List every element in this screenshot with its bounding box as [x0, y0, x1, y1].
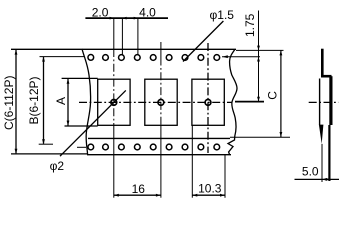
dimension 1.75 and C right shared dimension line [258, 11, 260, 102]
pocket center hole H3 [205, 100, 211, 106]
pocket P2 vertical centerline [160, 42, 162, 198]
left break line [82, 49, 91, 155]
pocket center hole H1 [111, 100, 117, 106]
arrowheads C right [280, 50, 283, 137]
leader line phi 1.5 [183, 21, 223, 62]
pocket P3 vertical centerline [207, 43, 209, 153]
leader line phi 2 [60, 90, 126, 156]
right break line [228, 49, 237, 154]
side view left extension line [321, 144, 323, 182]
side view centerline [309, 101, 339, 103]
B bottom row reference segment [77, 146, 86, 148]
dimension B line [43, 57, 45, 144]
1.75 bottom extension line (hole row center) [222, 56, 260, 58]
tape bottom edge [87, 154, 231, 156]
horizontal centerline [79, 101, 232, 103]
1.75 top extension line [236, 49, 284, 51]
dimension 2.0 4.0 extension line at hole 3 [137, 19, 139, 55]
svg-text:B(6-12P): B(6-12P) [27, 76, 41, 124]
tape top edge [11, 48, 236, 50]
sprocket hole row top [88, 55, 220, 61]
dimension A line [67, 79, 69, 126]
svg-text:1.75: 1.75 [243, 13, 257, 37]
dimension 16 line [114, 194, 161, 196]
side view step [321, 75, 332, 78]
pocket P1 vertical centerline [113, 19, 115, 198]
side view right profile upper [329, 76, 332, 125]
dimension 10.3 right extension line [224, 154, 226, 197]
arrowheads 10.3 [192, 194, 225, 197]
dimension 10.3 left extension line [191, 125, 193, 197]
arrowheads 5.0 [322, 178, 331, 181]
side view right profile lower [328, 125, 330, 181]
A top extension (pocket top edge extended) [62, 77, 98, 79]
svg-text:C(6-112P): C(6-112P) [2, 76, 16, 130]
pocket P3 [192, 79, 224, 125]
A bottom extension (pocket bottom edge extended) [65, 125, 98, 127]
arrowheads C left [15, 50, 18, 154]
side view wedge [319, 125, 324, 144]
arrowheads 16 [114, 194, 161, 197]
dimension C right line [280, 50, 282, 137]
pocket center hole H2 [158, 100, 164, 106]
side view left profile line [319, 79, 321, 126]
arrowheads A [67, 79, 70, 126]
dimension C left bottom extension line [11, 153, 87, 155]
svg-text:A: A [54, 97, 68, 105]
tape inner line above bottom sprocket row [88, 137, 230, 139]
svg-text:C: C [266, 91, 280, 100]
dimension line 2.0 4.0 [85, 17, 168, 19]
horizontal centerline right extension [235, 101, 264, 103]
pocket P2 [145, 79, 177, 125]
arrowheads 1.75 [222, 46, 260, 102]
svg-text:2.0: 2.0 [92, 5, 109, 19]
svg-text:4.0: 4.0 [139, 5, 156, 19]
svg-text:5.0: 5.0 [302, 165, 319, 179]
dimension 5.0 line [295, 178, 340, 180]
pocket P1 [98, 79, 130, 125]
svg-text:φ1.5: φ1.5 [210, 8, 235, 22]
B top extension line [40, 56, 85, 58]
B bottom extension line [39, 143, 53, 145]
dimension 10.3 line [192, 194, 225, 196]
sprocket hole row bottom [88, 144, 220, 150]
svg-text:16: 16 [132, 182, 146, 196]
inner line right extension [230, 136, 290, 138]
dimension C left line [15, 50, 17, 153]
svg-text:φ2: φ2 [50, 159, 65, 173]
side view upper profile line [321, 49, 324, 76]
svg-text:10.3: 10.3 [198, 182, 222, 196]
arrowheads B [42, 57, 45, 145]
dimension 2.0 4.0 extension line at hole 2 [121, 19, 123, 55]
arrowheads 2.0 4.0 [110, 17, 138, 20]
